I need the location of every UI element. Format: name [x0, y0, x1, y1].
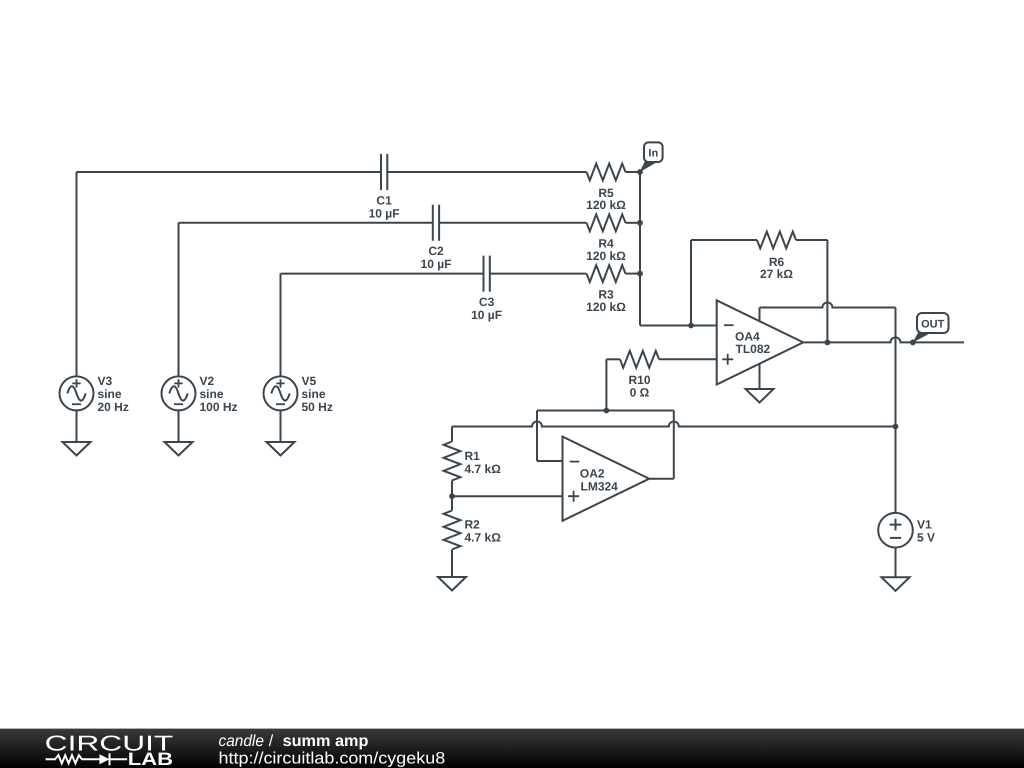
- svg-text:V5: V5: [302, 374, 317, 388]
- wire V5 vertical: [280, 274, 282, 377]
- wire V2 to ground: [178, 410, 180, 442]
- wire OA2 feedback top: [537, 410, 674, 412]
- source V3: [60, 376, 94, 410]
- svg-text:V2: V2: [200, 374, 215, 388]
- resistor R5: [587, 164, 626, 181]
- svg-text:100 Hz: 100 Hz: [200, 400, 238, 414]
- wire V2 vertical: [178, 223, 180, 377]
- svg-text:sine: sine: [200, 387, 224, 401]
- svg-text:LAB: LAB: [128, 749, 173, 768]
- source V1: [878, 513, 913, 548]
- wire OA2 feedback left vertical: [536, 411, 538, 462]
- wire V1 bottom lead: [895, 548, 897, 578]
- wire OA4 V+ pin: [759, 308, 761, 322]
- svg-text:4.7 kΩ: 4.7 kΩ: [465, 530, 502, 544]
- wire R6 right vertical: [826, 240, 828, 342]
- wire R2 bottom lead: [451, 550, 453, 578]
- wire R10 left lead: [606, 358, 620, 360]
- junction node R5/In: [637, 169, 643, 175]
- wire R3 to bus: [626, 273, 641, 275]
- svg-text:C1: C1: [376, 193, 392, 207]
- resistor R10: [620, 351, 659, 368]
- wire R10 down to OA2 loop: [605, 359, 607, 410]
- wire V5 to ground: [280, 410, 282, 442]
- svg-text:20 Hz: 20 Hz: [98, 400, 129, 414]
- svg-text:27 kΩ: 27 kΩ: [760, 267, 793, 281]
- wire V3 top horizontal to C1: [77, 171, 382, 173]
- source V2: [162, 376, 196, 410]
- resistor R2: [444, 511, 461, 550]
- CircuitLab logo resistor-diode symbol: [46, 753, 128, 765]
- wire C2 to R4: [439, 222, 586, 224]
- wire V3 vertical: [76, 172, 78, 376]
- svg-text:10 µF: 10 µF: [421, 257, 452, 271]
- svg-text:C2: C2: [428, 244, 444, 258]
- resistor R6: [757, 232, 796, 249]
- wire V5 top horizontal to C3: [281, 273, 484, 275]
- svg-text:120 kΩ: 120 kΩ: [586, 300, 626, 314]
- svg-text:candle: candle: [219, 733, 264, 750]
- ground (R2): [438, 577, 466, 591]
- svg-text:OUT: OUT: [921, 318, 945, 330]
- svg-text:5 V: 5 V: [917, 531, 935, 545]
- junction node R1/R2 divider: [449, 493, 455, 499]
- op-amp OA2 minus symbol: [570, 461, 580, 463]
- resistor R1: [444, 442, 461, 481]
- source V5: [264, 376, 298, 410]
- junction node R10/loop: [604, 408, 610, 414]
- node flag In box: [644, 142, 663, 162]
- svg-text:/: /: [269, 733, 274, 750]
- op-amp OA4: [717, 300, 804, 384]
- svg-text:In: In: [648, 148, 658, 160]
- wire V+ rail horizontal with hop over R6: [760, 303, 896, 308]
- capacitor C3: [484, 256, 490, 292]
- node OUT pointer: [913, 332, 931, 342]
- ground (OA4 V-): [746, 389, 774, 403]
- junction node R6/output: [825, 340, 831, 346]
- op-amp OA2: [563, 437, 650, 521]
- node In pointer: [640, 161, 656, 172]
- svg-text:10 µF: 10 µF: [369, 206, 400, 220]
- ground (V5): [267, 442, 295, 456]
- wire R6 top left: [691, 239, 757, 241]
- node flag OUT box: [917, 313, 949, 333]
- junction node R4/bus: [637, 220, 643, 226]
- junction node rail/V1: [893, 424, 899, 430]
- svg-text:C3: C3: [479, 295, 495, 309]
- wire R4 to bus: [626, 222, 641, 224]
- wire R6 left vertical: [690, 240, 692, 326]
- wire R5 to node In: [626, 171, 641, 173]
- capacitor C1: [381, 154, 387, 190]
- svg-text:4.7 kΩ: 4.7 kΩ: [465, 462, 502, 476]
- wire V+ rail vertical down to V1: [895, 308, 897, 513]
- junction node R6/inverting input: [688, 323, 694, 329]
- svg-text:sine: sine: [302, 387, 326, 401]
- op-amp OA4 plus symbol: [722, 354, 733, 365]
- wire R6 top right: [796, 239, 827, 241]
- wire OA2 output to feedback: [649, 478, 674, 480]
- wire summing bus vertical: [639, 172, 641, 326]
- wire V3 to ground: [76, 410, 78, 442]
- svg-text:TL082: TL082: [736, 342, 771, 356]
- svg-text:sine: sine: [98, 387, 122, 401]
- wire OA4 V- pin: [759, 364, 761, 389]
- wire OA4 output with hop over V+ rail: [803, 337, 964, 342]
- svg-text:V3: V3: [98, 374, 113, 388]
- svg-text:summ amp: summ amp: [283, 733, 369, 750]
- wire rail R1 to V1 with hops over OA2 feedback: [452, 422, 896, 427]
- svg-text:0 Ω: 0 Ω: [630, 385, 650, 399]
- ground (V1): [882, 577, 910, 591]
- wire OA2 inverting input: [537, 460, 563, 462]
- op-amp OA4 minus symbol: [724, 324, 734, 326]
- wire R10 to OA4 noninverting input: [659, 358, 717, 360]
- wire C1 to R5: [387, 171, 586, 173]
- op-amp OA2 plus symbol: [568, 491, 579, 502]
- svg-text:http://circuitlab.com/cygeku8: http://circuitlab.com/cygeku8: [219, 750, 446, 768]
- wire bus to OA4 inverting input: [640, 325, 717, 327]
- svg-text:120 kΩ: 120 kΩ: [586, 198, 626, 212]
- ground (V2): [165, 442, 193, 456]
- wire C3 to R3: [490, 273, 587, 275]
- svg-text:50 Hz: 50 Hz: [302, 400, 333, 414]
- resistor R4: [587, 214, 626, 231]
- wire R1 top lead: [451, 427, 453, 442]
- resistor R3: [587, 265, 626, 282]
- junction node OUT: [910, 340, 916, 346]
- ground (V3): [63, 442, 91, 456]
- svg-text:LM324: LM324: [581, 480, 619, 494]
- wire OA2 feedback right vertical: [673, 411, 675, 479]
- wire R2 top lead: [451, 496, 453, 510]
- wire R1 bottom lead: [451, 481, 453, 497]
- svg-text:120 kΩ: 120 kΩ: [586, 249, 626, 263]
- junction node R3/bus: [637, 271, 643, 277]
- capacitor C2: [433, 205, 439, 241]
- svg-text:10 µF: 10 µF: [471, 308, 502, 322]
- wire divider to OA2 noninverting input: [452, 495, 563, 497]
- wire V2 top horizontal to C2: [179, 222, 433, 224]
